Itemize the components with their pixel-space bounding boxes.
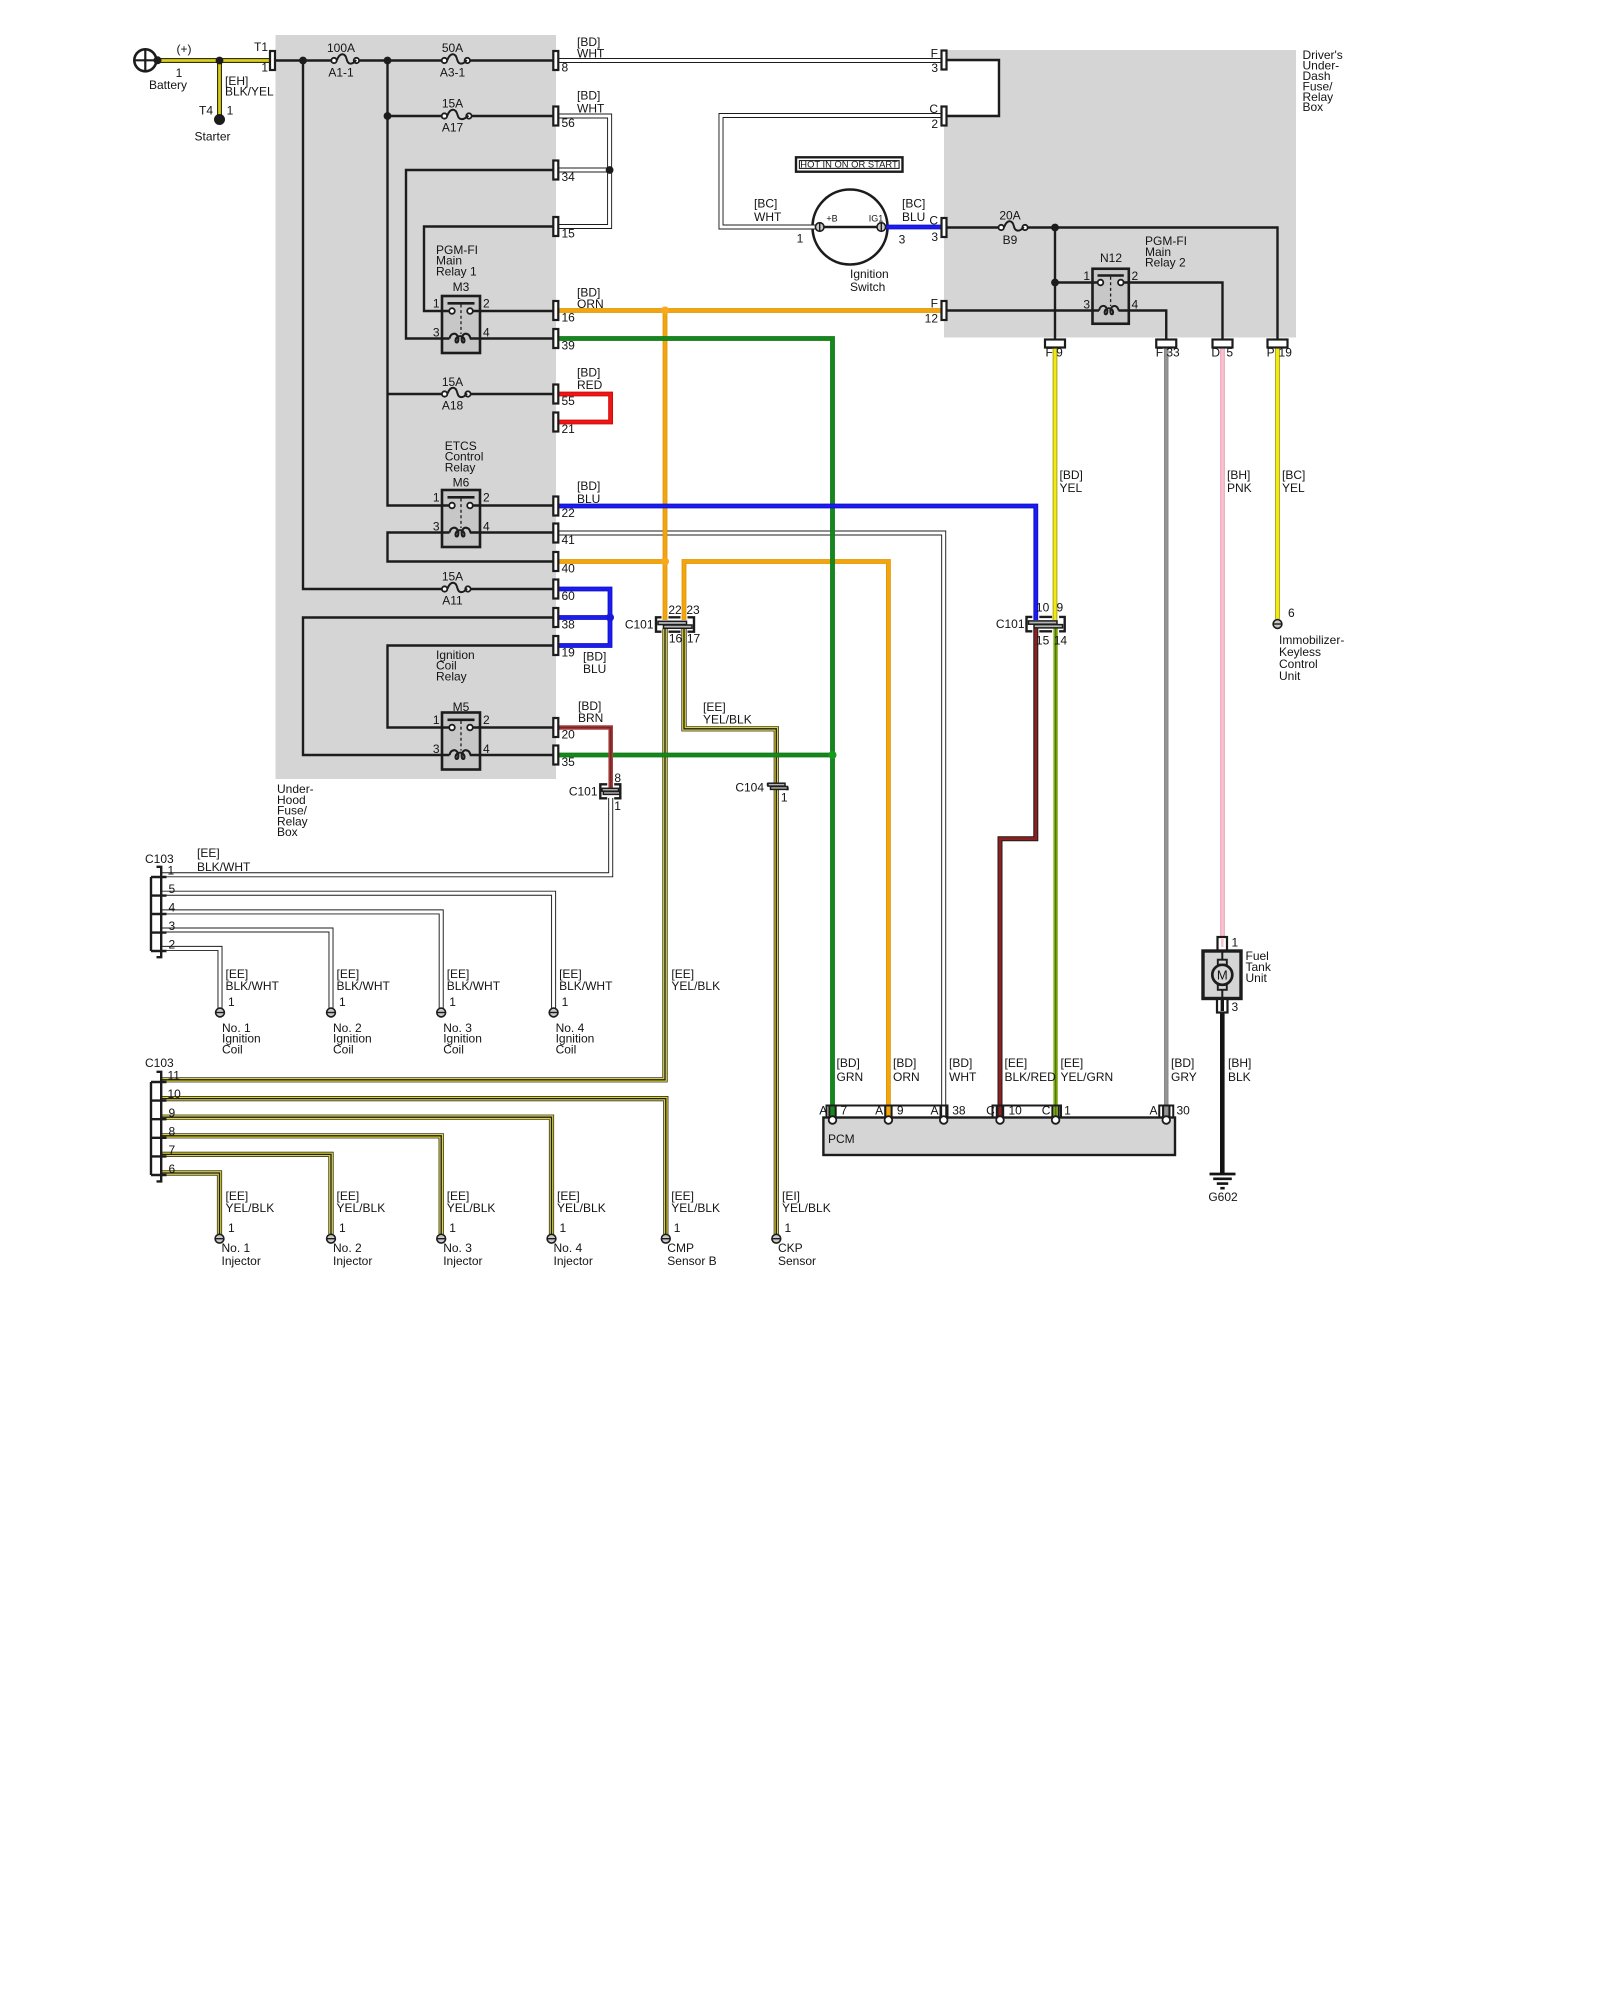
wire relay M5 pin 4 to pin 35 <box>470 754 554 756</box>
label BD BLU at pin 19 <box>583 650 606 677</box>
svg-text:WHT: WHT <box>577 47 605 61</box>
wire [EE] BLK/WHT C103 pin 3 to No.2 ignition coil <box>160 930 331 1008</box>
svg-text:A1-1: A1-1 <box>328 66 354 80</box>
junction orange pin 16 branch <box>661 307 669 315</box>
pin 8 <box>553 51 568 75</box>
svg-text:C101: C101 <box>996 617 1025 631</box>
svg-text:Sensor: Sensor <box>778 1254 816 1268</box>
svg-text:CKP: CKP <box>778 1241 803 1255</box>
svg-text:BLK/RED: BLK/RED <box>1005 1070 1057 1084</box>
battery <box>134 42 191 92</box>
svg-text:[BD]: [BD] <box>577 89 600 103</box>
svg-text:1: 1 <box>781 790 788 804</box>
svg-text:Sensor B: Sensor B <box>667 1254 716 1268</box>
svg-text:IG1: IG1 <box>869 214 884 224</box>
svg-text:HOT IN ON OR START: HOT IN ON OR START <box>800 159 898 170</box>
label EE BLK/RED at PCM C10 <box>1005 1056 1057 1084</box>
wire [EE] BLK/WHT C101-1 to C103 pin 1 <box>160 798 611 875</box>
relay M6 ETCS control relay body <box>433 439 490 547</box>
svg-text:BLK: BLK <box>1228 1070 1251 1084</box>
fuel tank unit <box>1203 936 1272 1015</box>
wire pin 38 to relay M5 pin 3 <box>303 618 554 756</box>
connector T1 <box>254 40 275 75</box>
svg-text:1: 1 <box>168 864 175 878</box>
wire fuse A18 row to pin 55 <box>388 393 554 395</box>
svg-text:BLK/WHT: BLK/WHT <box>337 979 391 993</box>
wire [EE] YEL/BLK C103 pin 8 to No.3 injector <box>160 1136 441 1234</box>
svg-text:1: 1 <box>449 1221 456 1235</box>
svg-text:YEL/BLK: YEL/BLK <box>447 1201 496 1215</box>
svg-text:39: 39 <box>562 339 576 353</box>
svg-text:1: 1 <box>228 1221 235 1235</box>
svg-text:2: 2 <box>1132 269 1139 283</box>
junction battery to starter <box>216 57 224 65</box>
svg-text:A11: A11 <box>442 594 463 608</box>
No. 2 injector <box>327 1189 386 1268</box>
wire relay M3 pin 4 to pin 39 <box>470 337 554 339</box>
junction blue pin 38 branch <box>606 614 614 622</box>
svg-text:[BD]: [BD] <box>577 479 600 493</box>
wire [EE] BLK/WHT C103 pin 5 to No.4 ignition coil <box>160 893 554 1008</box>
junction green pin 35 branch <box>829 751 837 759</box>
svg-text:35: 35 <box>562 755 576 769</box>
starter node T4 <box>194 74 274 144</box>
svg-text:YEL: YEL <box>1282 481 1305 495</box>
svg-text:21: 21 <box>562 422 576 436</box>
pin 40 <box>553 552 575 576</box>
svg-text:11: 11 <box>168 1069 181 1083</box>
svg-text:[BD]: [BD] <box>949 1056 972 1070</box>
svg-text:22: 22 <box>562 506 576 520</box>
svg-text:15A: 15A <box>442 375 463 389</box>
pin 35 <box>553 746 575 770</box>
pin 16 <box>553 301 575 325</box>
label EE BLK/WHT at C103 pin 1 <box>197 846 251 874</box>
wire battery bus inside under-hood box <box>273 59 554 61</box>
svg-text:Box: Box <box>1303 100 1324 114</box>
label BC WHT ignition feed <box>754 196 782 224</box>
connector C101 pin 8/1 <box>569 771 622 813</box>
junction white loop pin 34 <box>606 166 614 174</box>
pin 41 <box>553 524 575 548</box>
svg-text:YEL: YEL <box>1060 481 1083 495</box>
under-dash pin P19 <box>1267 340 1293 360</box>
svg-text:1: 1 <box>433 297 440 311</box>
svg-text:2: 2 <box>483 713 490 727</box>
svg-text:23: 23 <box>686 603 700 617</box>
svg-text:WHT: WHT <box>577 101 605 115</box>
svg-text:6: 6 <box>1288 606 1295 620</box>
wire pin C3 to fuse B9 and to pin P19 <box>944 228 1278 340</box>
svg-text:[BD]: [BD] <box>1171 1056 1194 1070</box>
No. 1 injector <box>215 1189 274 1268</box>
svg-text:B9: B9 <box>1003 233 1018 247</box>
svg-text:PNK: PNK <box>1227 481 1252 495</box>
wire pin 34 to relay M3 pin 3 <box>406 170 554 339</box>
svg-text:GRN: GRN <box>837 1070 864 1084</box>
svg-text:1: 1 <box>1232 936 1239 950</box>
driver's under-dash fuse/relay box <box>944 48 1343 337</box>
svg-text:C: C <box>929 214 938 228</box>
wire [BD] WHT pin 56 loop to pin 15 <box>559 116 610 227</box>
svg-text:BLK/WHT: BLK/WHT <box>559 979 613 993</box>
svg-text:C: C <box>929 102 938 116</box>
fuse 15A A18 <box>442 375 471 413</box>
svg-text:Switch: Switch <box>850 280 885 294</box>
svg-text:40: 40 <box>562 562 576 576</box>
svg-text:3: 3 <box>899 233 906 247</box>
wire [BD] RED pin 55 loop to pin 21 <box>559 394 611 422</box>
svg-text:A: A <box>875 1104 883 1118</box>
svg-text:Ignition: Ignition <box>850 267 889 281</box>
wire [EE] YEL/BLK C103 pin 6 to No.1 injector <box>160 1173 220 1234</box>
svg-text:2: 2 <box>931 117 938 131</box>
svg-text:RED: RED <box>577 378 603 392</box>
svg-text:16: 16 <box>562 311 576 325</box>
label BH PNK at D5 <box>1227 468 1252 495</box>
label BC BLU ignition output <box>902 196 925 224</box>
svg-text:F: F <box>1046 346 1053 360</box>
svg-text:1: 1 <box>562 995 569 1009</box>
svg-text:17: 17 <box>687 632 701 646</box>
pin 39 <box>553 329 575 353</box>
svg-text:10: 10 <box>1009 1104 1023 1118</box>
svg-text:8: 8 <box>614 771 621 785</box>
label EE YEL/BLK at C101-17 <box>703 700 752 726</box>
No. 4 injector <box>547 1189 606 1268</box>
wire [BH] BLK fuel tank unit pin 3 to G602 <box>1220 1012 1225 1173</box>
wire relay N12 pin 4 to pin F33 <box>1119 311 1167 340</box>
svg-text:1: 1 <box>1064 1104 1071 1118</box>
wire relay M6 pin 4 to pin 41 <box>470 531 554 533</box>
pin 22 <box>553 497 575 521</box>
svg-text:3: 3 <box>931 230 938 244</box>
svg-text:Injector: Injector <box>554 1254 593 1268</box>
wire junction to relay N12 pin 1 and pin F9 <box>1055 228 1098 340</box>
label BH BLK at G602 wire <box>1228 1056 1251 1084</box>
svg-text:YEL/BLK: YEL/BLK <box>782 1201 831 1215</box>
relay M5 ignition coil relay body <box>433 648 490 770</box>
svg-text:9: 9 <box>169 1106 176 1120</box>
junction relay N12 pin 1 feed <box>1051 279 1059 287</box>
wire under-dash pin F3 to pin C2 <box>944 60 999 116</box>
svg-text:4: 4 <box>169 901 176 915</box>
svg-text:BLK/WHT: BLK/WHT <box>197 860 251 874</box>
svg-text:ORN: ORN <box>893 1070 920 1084</box>
svg-text:1: 1 <box>1083 269 1090 283</box>
junction fuse A17 feed <box>384 112 392 120</box>
svg-text:No. 2: No. 2 <box>333 1241 362 1255</box>
wire [BD] ORN C101-23 to PCM A9 <box>684 562 888 1117</box>
svg-text:BLK/YEL: BLK/YEL <box>225 85 274 99</box>
wire vertical feed x303 to fuse A11 <box>303 61 442 590</box>
svg-text:22: 22 <box>668 603 682 617</box>
pin 15 <box>553 217 575 241</box>
svg-text:T1: T1 <box>254 40 268 54</box>
wire [BD] BRN pin 20 to C101-8 <box>559 728 611 788</box>
svg-text:A: A <box>819 1104 827 1118</box>
ground G602 <box>1208 1174 1238 1204</box>
svg-text:10: 10 <box>1036 601 1050 615</box>
svg-text:19: 19 <box>1279 346 1293 360</box>
svg-text:6: 6 <box>169 1162 176 1176</box>
svg-text:C101: C101 <box>625 618 654 632</box>
wire [BD] WHT pin 8 to under-dash pin F3 <box>559 58 942 63</box>
svg-text:YEL/BLK: YEL/BLK <box>337 1201 386 1215</box>
svg-text:Unit: Unit <box>1246 971 1268 985</box>
svg-text:1: 1 <box>560 1221 567 1235</box>
svg-text:10: 10 <box>168 1087 182 1101</box>
svg-text:5: 5 <box>169 882 176 896</box>
svg-text:5: 5 <box>1226 346 1233 360</box>
PCM connector C10-C1 <box>986 1104 1071 1124</box>
svg-text:2: 2 <box>483 297 490 311</box>
svg-text:Battery: Battery <box>149 78 187 92</box>
PCM <box>823 1118 1175 1156</box>
svg-text:YEL/GRN: YEL/GRN <box>1061 1070 1114 1084</box>
svg-text:Coil: Coil <box>556 1042 577 1056</box>
svg-text:33: 33 <box>1166 346 1180 360</box>
svg-text:BLK/WHT: BLK/WHT <box>226 979 280 993</box>
wire [EE] BLK/WHT C103 pin 4 to No.3 ignition coil <box>160 912 441 1008</box>
wire [EE] YEL/GRN C101-14 to PCM C1 <box>1053 629 1058 1117</box>
svg-text:[BD]: [BD] <box>837 1056 860 1070</box>
svg-text:15: 15 <box>1036 633 1050 647</box>
svg-text:3: 3 <box>1232 1000 1239 1014</box>
relay M6 contact terminals <box>449 503 473 509</box>
svg-text:1: 1 <box>228 995 235 1009</box>
pin 56 <box>553 107 575 131</box>
svg-text:Injector: Injector <box>333 1254 372 1268</box>
wire pin F12 to relay N12 pin 3 <box>944 309 1099 311</box>
svg-text:[EE]: [EE] <box>1005 1056 1028 1070</box>
svg-text:F: F <box>931 47 938 61</box>
wire [BD] ORN pin 16 to under-dash pin F12 <box>559 308 942 313</box>
svg-text:20: 20 <box>562 728 576 742</box>
svg-text:Injector: Injector <box>443 1254 482 1268</box>
svg-text:20A: 20A <box>999 209 1020 223</box>
pin 20 <box>553 718 575 742</box>
wire [BD] ORN branch down to C101-22 <box>663 311 668 621</box>
svg-text:A18: A18 <box>442 399 464 413</box>
label EE YEL/BLK on CMP feed line <box>671 967 720 993</box>
svg-text:Relay: Relay <box>445 460 476 474</box>
PCM pin A30 <box>1149 1104 1190 1124</box>
svg-text:BLU: BLU <box>902 210 925 224</box>
wire [BC] WHT ignition switch +B to pin C2 <box>721 116 942 228</box>
under-dash pin D5 <box>1211 340 1233 360</box>
junction fuse B9 output <box>1051 224 1059 232</box>
svg-text:P: P <box>1267 346 1275 360</box>
svg-text:YEL/BLK: YEL/BLK <box>226 1201 275 1215</box>
under-dash pin C3 <box>929 214 946 245</box>
fuse 20A B9 <box>999 209 1028 248</box>
ignition switch <box>813 190 889 295</box>
svg-text:Starter: Starter <box>194 130 230 144</box>
svg-text:7: 7 <box>169 1143 176 1157</box>
wire [EE] BLK/RED C101-15 to PCM C10 <box>1000 629 1036 1117</box>
label BD ORN at pin 16 <box>577 286 604 311</box>
svg-text:Relay 2: Relay 2 <box>1145 256 1186 270</box>
svg-text:M6: M6 <box>453 476 470 490</box>
connector C103 pins 11/10/9/8/7/6 <box>145 1056 181 1181</box>
svg-text:1: 1 <box>227 104 234 118</box>
wire fuse A11 to pin 60 <box>470 588 553 590</box>
wire [BD] GRN pin 39 to PCM A7 <box>559 339 833 1117</box>
svg-text:A3-1: A3-1 <box>440 66 466 80</box>
svg-text:No. 4: No. 4 <box>554 1241 583 1255</box>
connector C101 pins 22/23-16/17 <box>625 603 701 646</box>
immobilizer-keyless control unit terminal 6 <box>1273 606 1344 683</box>
No. 3 injector <box>437 1189 496 1268</box>
svg-text:M: M <box>1217 968 1228 983</box>
svg-text:2: 2 <box>169 938 176 952</box>
svg-text:1: 1 <box>797 232 804 246</box>
wire [BD] BLU pin 60 loop to pin 19 <box>559 589 611 646</box>
svg-text:[BH]: [BH] <box>1228 1056 1251 1070</box>
svg-text:CMP: CMP <box>667 1241 694 1255</box>
wire [BC] YEL pin P19 to immobilizer-keyless control unit <box>1275 347 1280 619</box>
svg-text:PCM: PCM <box>828 1132 855 1146</box>
junction orange pin 40 branch <box>661 558 669 566</box>
svg-text:Unit: Unit <box>1279 669 1301 683</box>
svg-text:A: A <box>930 1104 938 1118</box>
svg-text:GRY: GRY <box>1171 1070 1197 1084</box>
svg-text:1: 1 <box>785 1221 792 1235</box>
connector C103 pins 1/5/4/3/2 <box>145 852 176 957</box>
svg-text:15A: 15A <box>442 97 463 111</box>
relay M3 contact terminals <box>449 308 473 314</box>
under-hood fuse/relay box <box>276 35 557 839</box>
pin 19 <box>553 636 575 660</box>
label BD WHT at pin 56 <box>577 89 605 116</box>
svg-text:14: 14 <box>1054 633 1068 647</box>
svg-text:12: 12 <box>925 312 939 326</box>
svg-text:16: 16 <box>669 632 683 646</box>
svg-text:C: C <box>1042 1104 1051 1118</box>
No. 4 ignition coil <box>549 967 613 1056</box>
svg-text:Coil: Coil <box>222 1042 243 1056</box>
wire fuse A17 row to pin 56 <box>388 115 554 117</box>
junction bus x387 <box>384 57 392 65</box>
svg-text:M3: M3 <box>453 280 470 294</box>
svg-text:3: 3 <box>169 919 176 933</box>
svg-text:1: 1 <box>433 713 440 727</box>
svg-text:No. 1: No. 1 <box>222 1241 251 1255</box>
wire [EE] YEL/BLK C103 pin 10 to CMP sensor B <box>160 1099 666 1234</box>
junction bus x303 <box>299 57 307 65</box>
svg-text:[EE]: [EE] <box>197 846 220 860</box>
under-dash pin C2 <box>929 102 946 131</box>
svg-text:C: C <box>986 1104 995 1118</box>
svg-text:YEL/BLK: YEL/BLK <box>703 712 752 726</box>
wire relay M6 pin 2 to pin 22 <box>473 504 554 506</box>
wire [BD] WHT pin 41 to PCM A38 <box>559 533 944 1116</box>
label BD WHT at pin 8 <box>577 35 605 61</box>
HOT IN ON OR START banner <box>796 157 903 171</box>
svg-text:9: 9 <box>1056 346 1063 360</box>
svg-text:YEL/BLK: YEL/BLK <box>557 1201 606 1215</box>
ignition switch terminal IG1 <box>869 214 906 247</box>
wire relay M5 pin 2 to pin 20 <box>473 726 554 728</box>
svg-text:C101: C101 <box>569 785 598 799</box>
svg-text:41: 41 <box>562 533 576 547</box>
svg-text:15: 15 <box>562 227 576 241</box>
No. 3 ignition coil <box>437 967 501 1056</box>
wire [BD] GRN pin 35 to junction <box>559 753 833 758</box>
svg-text:WHT: WHT <box>949 1070 977 1084</box>
svg-text:1: 1 <box>449 995 456 1009</box>
svg-text:D: D <box>1211 346 1220 360</box>
svg-text:BRN: BRN <box>578 711 603 725</box>
fuse 15A A11 <box>442 570 471 608</box>
svg-text:BLU: BLU <box>577 492 600 506</box>
svg-text:BLK/WHT: BLK/WHT <box>447 979 501 993</box>
svg-text:Injector: Injector <box>222 1254 261 1268</box>
svg-text:[EE]: [EE] <box>1061 1056 1084 1070</box>
label BD BRN at pin 20 <box>578 699 603 725</box>
svg-text:F: F <box>931 297 938 311</box>
wire [EE] BLK/WHT C103 pin 2 to No.1 ignition coil <box>160 948 220 1008</box>
CKP sensor <box>772 1189 831 1268</box>
under-dash pin F12 <box>925 297 947 326</box>
svg-text:15A: 15A <box>442 570 463 584</box>
svg-text:Box: Box <box>277 825 298 839</box>
pin 34 <box>553 161 575 185</box>
pin 21 <box>553 413 575 437</box>
svg-text:60: 60 <box>562 589 576 603</box>
svg-text:F: F <box>1156 346 1163 360</box>
svg-text:30: 30 <box>1177 1104 1191 1118</box>
svg-text:1: 1 <box>339 1221 346 1235</box>
svg-text:A17: A17 <box>442 121 464 135</box>
label BC YEL at P19 <box>1282 468 1305 495</box>
svg-text:100A: 100A <box>327 41 355 55</box>
PCM connector A7-A38 <box>819 1104 966 1124</box>
svg-text:8: 8 <box>169 1125 176 1139</box>
svg-text:N12: N12 <box>1100 251 1122 265</box>
fuse 100A A1-1 <box>327 41 359 80</box>
label BD BLU at pin 22 <box>577 479 600 506</box>
wire [EE] YEL/BLK C103 pin 9 to No.4 injector <box>160 1117 552 1234</box>
label BD GRN at PCM A7 <box>837 1056 864 1084</box>
svg-text:1: 1 <box>339 995 346 1009</box>
pin 60 <box>553 580 575 604</box>
svg-text:56: 56 <box>562 116 576 130</box>
relay M5 contact terminals <box>449 725 473 731</box>
wire [EE] YEL/BLK C103 pin 7 to No.2 injector <box>160 1154 331 1234</box>
wire [BH] PNK pin D5 to fuel tank unit pin 1 <box>1220 347 1225 940</box>
svg-text:[BD]: [BD] <box>893 1056 916 1070</box>
svg-text:Coil: Coil <box>443 1042 464 1056</box>
wire [BD] BLU pin 22 to C101-10 <box>559 506 1036 620</box>
svg-text:1: 1 <box>614 799 621 813</box>
wire [BD] BLU pin 38 stub <box>559 615 612 620</box>
svg-text:YEL/BLK: YEL/BLK <box>671 979 720 993</box>
wire relay N12 pin 2 to pin D5 <box>1124 283 1223 340</box>
under-dash pin F9 <box>1045 340 1065 360</box>
svg-text:Relay: Relay <box>436 669 467 683</box>
wire pin 34 stub to white loop <box>559 168 612 173</box>
relay N12 contact terminals <box>1098 280 1124 286</box>
svg-text:38: 38 <box>562 618 576 632</box>
svg-text:WHT: WHT <box>754 210 782 224</box>
wire [EE] YEL/BLK C101-16 to C103 pin 11 <box>160 629 665 1080</box>
svg-text:Coil: Coil <box>333 1042 354 1056</box>
connector C104 pin 1 <box>735 781 788 805</box>
svg-text:19: 19 <box>562 646 576 660</box>
svg-text:G602: G602 <box>1208 1190 1238 1204</box>
